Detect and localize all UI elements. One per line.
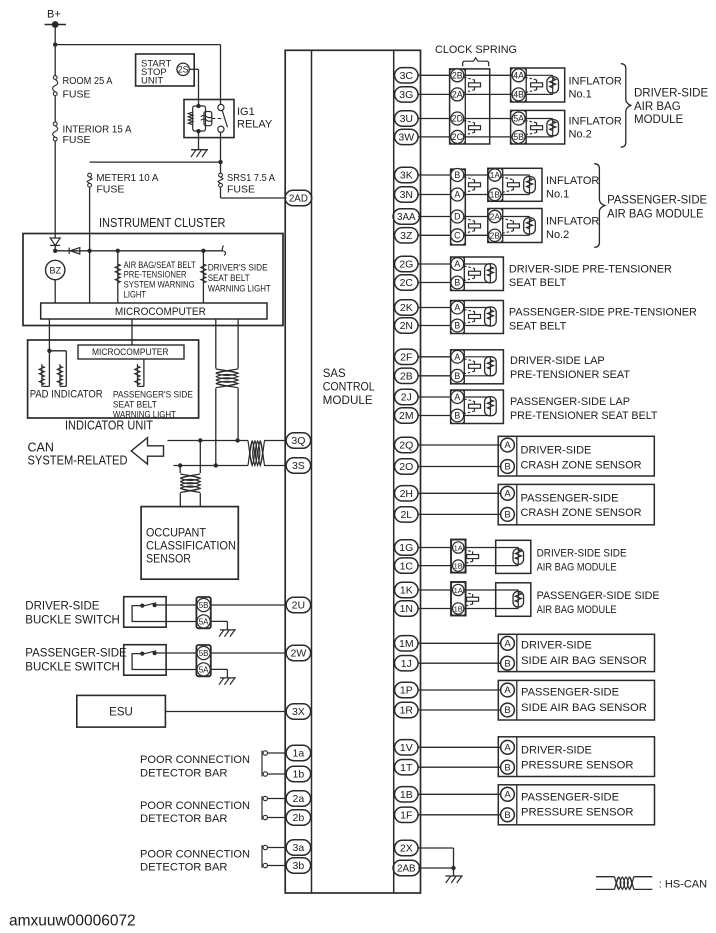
sensor passenger side air bag: [418, 680, 654, 720]
connector block passenger buckle: [196, 645, 210, 676]
node junction ground: [451, 866, 455, 870]
svg-text:2J: 2J: [401, 392, 412, 404]
connector 3N: [395, 187, 419, 202]
label occupant classification sensor: [146, 528, 236, 566]
svg-text:2AD: 2AD: [289, 194, 308, 205]
wire 5B to 2W: [210, 652, 286, 654]
svg-text:SEAT BELT: SEAT BELT: [509, 321, 567, 333]
wire CAN low to 3Q line: [237, 388, 239, 440]
label ROOM 25 A FUSE: [63, 75, 113, 101]
label PASSENGER-SIDE SIDE AIR BAG SENSOR: [521, 687, 647, 714]
connector 1T: [395, 760, 419, 775]
svg-text:SIDE AIR BAG SENSOR: SIDE AIR BAG SENSOR: [521, 702, 647, 714]
wire occupant sensor low: [179, 466, 181, 474]
svg-text:No.2: No.2: [569, 129, 592, 141]
svg-text:UNIT: UNIT: [141, 76, 163, 87]
svg-text:PASSENGER-SIDE: PASSENGER-SIDE: [521, 687, 619, 699]
shorting bar passenger pair 2: [464, 219, 481, 234]
svg-text:B+: B+: [47, 9, 61, 21]
connector 2L: [395, 507, 419, 522]
wire interior fuse to instrument cluster: [54, 141, 56, 238]
connector 3Z: [395, 228, 419, 243]
connector 2M: [395, 408, 419, 423]
connector 2K: [395, 300, 419, 315]
wire ESU to 3X: [165, 711, 286, 713]
lamp pad indicator 2: [57, 366, 62, 385]
svg-text:1B: 1B: [454, 562, 463, 571]
connector 2a: [286, 791, 311, 806]
node junction lamp2: [201, 249, 205, 253]
connector 2J: [395, 389, 419, 404]
wire pin A to inflator: [464, 194, 489, 196]
pin 4B: [512, 88, 525, 101]
svg-text:2b: 2b: [293, 812, 305, 824]
label DRIVER-SIDE AIR BAG MODULE: [634, 88, 708, 127]
sensor driver side air bag: [418, 634, 654, 671]
label INFLATOR No.1 passenger: [546, 175, 599, 201]
svg-text:FUSE: FUSE: [63, 134, 91, 146]
svg-text:SRS1 7.5 A: SRS1 7.5 A: [227, 172, 275, 184]
svg-text:A: A: [504, 789, 511, 800]
svg-text:IG1: IG1: [237, 106, 255, 118]
svg-text:A: A: [454, 352, 460, 362]
shorting bar passenger pair 1: [464, 177, 481, 193]
svg-text:No.1: No.1: [569, 89, 592, 101]
lamp passenger seat belt warning: [135, 366, 140, 385]
connector 3W: [395, 129, 419, 144]
svg-text:5B: 5B: [199, 601, 209, 610]
svg-text:2O: 2O: [399, 461, 413, 473]
bracket clock spring: [463, 58, 489, 67]
brace passenger-side air bag module: [594, 164, 605, 248]
svg-text:BZ: BZ: [49, 265, 61, 275]
svg-text:A: A: [504, 488, 511, 499]
connector 3b: [286, 858, 311, 873]
label PASSENGER-SIDE PRESSURE SENSOR: [521, 792, 634, 819]
wire clock spring 2D to inflator: [464, 118, 513, 120]
svg-text:ROOM 25 A: ROOM 25 A: [63, 75, 113, 87]
pre-tensioner driver lap unit: [418, 350, 503, 384]
wire 2AB to ground: [418, 867, 453, 869]
pin 5B: [512, 130, 525, 143]
node junction lamp1: [116, 249, 120, 253]
wire cluster lamp bus: [55, 250, 222, 252]
svg-text:2F: 2F: [400, 352, 412, 364]
svg-text:RELAY: RELAY: [237, 119, 273, 131]
label DRIVER-SIDE SIDE AIR BAG MODULE: [537, 548, 627, 574]
svg-text:DETECTOR BAR: DETECTOR BAR: [140, 862, 228, 874]
label SRS1 7.5 A FUSE: [227, 172, 275, 196]
brace driver-side air bag module: [621, 64, 631, 148]
wire METER1 to microcomputer: [89, 187, 91, 303]
pin 2A passenger inflator: [489, 210, 501, 222]
sensor driver pressure: [418, 737, 654, 777]
connector 2O: [395, 459, 419, 474]
svg-text:2A: 2A: [452, 90, 463, 100]
svg-text:METER1 10 A: METER1 10 A: [96, 172, 158, 184]
svg-text:PAD INDICATOR: PAD INDICATOR: [30, 388, 103, 400]
switch hook seat belt: [222, 246, 225, 256]
connector 1G: [395, 540, 419, 555]
svg-text:2a: 2a: [293, 793, 305, 805]
connector 1C: [395, 558, 419, 573]
svg-text:MICROCOMPUTER: MICROCOMPUTER: [92, 347, 169, 358]
connector 2Q: [395, 437, 419, 452]
wire 3K to strip: [418, 174, 451, 176]
svg-text:A: A: [504, 440, 511, 451]
svg-text:B: B: [454, 411, 460, 421]
svg-text:2L: 2L: [400, 509, 412, 521]
svg-text:PASSENGER-SIDE PRE-TENSIONER: PASSENGER-SIDE PRE-TENSIONER: [509, 307, 697, 319]
label PASSENGER-SIDE AIR BAG MODULE: [607, 194, 707, 220]
svg-text:SYSTEM-RELATED: SYSTEM-RELATED: [28, 453, 128, 467]
wire relay coil to ground: [198, 131, 200, 149]
pin 2D clock spring: [451, 112, 464, 125]
node junction B+ bus: [53, 42, 57, 46]
twisted pair CAN from cluster: [216, 369, 238, 388]
svg-text:5B: 5B: [199, 649, 209, 658]
label DRIVER-SIDE BUCKLE SWITCH: [25, 601, 120, 627]
wire 3G to clock spring: [418, 93, 451, 95]
node junction CAN high: [214, 463, 218, 467]
svg-text:SIDE AIR BAG SENSOR: SIDE AIR BAG SENSOR: [521, 655, 647, 667]
svg-text:CLOCK SPRING: CLOCK SPRING: [435, 44, 517, 56]
connector 2B: [395, 368, 419, 383]
label DRIVER-SIDE SIDE AIR BAG SENSOR: [521, 640, 647, 667]
svg-text:AIR BAG: AIR BAG: [634, 101, 681, 113]
svg-text:3b: 3b: [293, 860, 305, 872]
connector 1B: [395, 787, 419, 802]
ground relay coil: [191, 150, 208, 157]
diode D2 left: [69, 248, 80, 254]
pin 1B passenger inflator: [489, 188, 501, 200]
box inflator No.2 passenger: [488, 209, 542, 243]
connector 1K: [395, 582, 419, 597]
svg-text:5B: 5B: [513, 132, 524, 142]
svg-text:MODULE: MODULE: [634, 114, 684, 126]
squib inflator No.2 passenger: [501, 217, 535, 236]
node junction BZ: [53, 249, 57, 253]
wire twisted pair to occupant sensor: [180, 493, 200, 506]
wire SRS1 to connector 2AD: [221, 187, 287, 198]
connector 2W: [286, 645, 311, 660]
svg-text:A: A: [504, 742, 511, 753]
label DRIVER-SIDE LAP PRE-TENSIONER SEAT: [510, 355, 630, 381]
svg-text:BUCKLE SWITCH: BUCKLE SWITCH: [25, 662, 120, 674]
svg-text:INFLATOR: INFLATOR: [569, 75, 622, 87]
wire 3AA to strip: [418, 216, 451, 218]
label INSTRUMENT CLUSTER: [99, 215, 226, 230]
svg-text:PRE-TENSIONER SEAT: PRE-TENSIONER SEAT: [510, 369, 630, 381]
ground driver buckle: [219, 630, 236, 637]
box microcomputer cluster: [41, 303, 267, 319]
fuse ROOM 25 A: [53, 76, 58, 96]
connector 2U: [286, 597, 311, 612]
svg-text:DRIVER-SIDE: DRIVER-SIDE: [25, 601, 99, 613]
pin D passenger module: [451, 210, 464, 223]
connector 5A passenger: [197, 663, 210, 676]
arrow CAN system-related: [131, 438, 163, 465]
svg-text:FUSE: FUSE: [96, 184, 124, 196]
connector 2AB: [393, 860, 420, 875]
svg-text:CRASH ZONE SENSOR: CRASH ZONE SENSOR: [521, 507, 642, 519]
connector 2C: [395, 275, 419, 290]
label PASSENGER-SIDE BUCKLE SWITCH: [25, 648, 127, 674]
svg-text:A: A: [454, 259, 460, 269]
svg-text:1P: 1P: [400, 685, 413, 697]
svg-text:: HS-CAN: : HS-CAN: [659, 879, 707, 891]
wire BZ to microcomputer: [54, 280, 56, 303]
svg-text:DRIVER-SIDE: DRIVER-SIDE: [521, 445, 592, 457]
svg-text:LIGHT: LIGHT: [124, 289, 147, 299]
svg-text:SEAT BELT: SEAT BELT: [509, 277, 567, 289]
label diagram id: [9, 913, 136, 930]
label DRIVER-SIDE PRESSURE SENSOR: [521, 744, 634, 771]
svg-text:PRESSURE SENSOR: PRESSURE SENSOR: [521, 807, 634, 819]
wire 3U to clock spring: [418, 118, 451, 120]
svg-text:3K: 3K: [400, 170, 413, 182]
svg-text:2H: 2H: [400, 488, 413, 500]
box driver buckle switch: [124, 597, 166, 628]
box inflator No.2 driver: [511, 110, 565, 144]
svg-text:3AA: 3AA: [397, 212, 416, 223]
svg-text:WARNING LIGHT: WARNING LIGHT: [208, 283, 271, 293]
svg-text:PRE-TENSIONER: PRE-TENSIONER: [124, 270, 187, 280]
label DRIVER-SIDE CRASH ZONE SENSOR: [521, 445, 642, 472]
node junction meter wire: [87, 249, 91, 253]
diode D1 down: [50, 238, 60, 251]
connector 1b: [286, 766, 311, 781]
svg-text:A: A: [504, 685, 511, 696]
svg-text:INSTRUMENT CLUSTER: INSTRUMENT CLUSTER: [99, 215, 226, 230]
svg-text:PASSENGER-SIDE: PASSENGER-SIDE: [521, 792, 619, 804]
connector block driver buckle: [196, 597, 210, 628]
svg-text:DRIVER-SIDE LAP: DRIVER-SIDE LAP: [510, 355, 605, 367]
svg-text:POOR CONNECTION: POOR CONNECTION: [140, 800, 250, 812]
wire clock spring 2A to inflator: [464, 93, 513, 95]
svg-text:2C: 2C: [452, 132, 464, 142]
wire pin D to inflator: [464, 216, 489, 218]
wire B+ to IG1 relay: [55, 45, 220, 105]
svg-text:3S: 3S: [292, 460, 305, 472]
label INFLATOR No.2 passenger: [546, 216, 599, 242]
svg-text:1A: 1A: [454, 544, 463, 553]
svg-text:D: D: [454, 212, 460, 222]
pre-tensioner passenger lap unit: [418, 390, 503, 424]
label START STOP UNIT: [141, 59, 171, 87]
svg-text:3W: 3W: [398, 132, 414, 144]
twisted pair 3Q 3S lines: [248, 441, 265, 466]
svg-text:INFLATOR: INFLATOR: [546, 175, 599, 187]
svg-text:2X: 2X: [400, 843, 413, 855]
pin 4A: [512, 69, 525, 82]
shorting bar clock spring pair 2: [464, 121, 481, 135]
svg-text:3X: 3X: [292, 706, 305, 718]
connector 1J: [395, 656, 419, 671]
svg-text:PASSENGER-SIDE: PASSENGER-SIDE: [521, 492, 619, 504]
wire relay contact to SRS1: [220, 132, 222, 173]
svg-text:DRIVER-SIDE: DRIVER-SIDE: [521, 640, 592, 652]
svg-text:4A: 4A: [513, 70, 524, 80]
label INFLATOR No.2 driver: [569, 116, 622, 141]
svg-text:1B: 1B: [490, 191, 501, 200]
svg-text:1C: 1C: [400, 560, 414, 572]
label PASSENGER-SIDE LAP PRE-TENSIONER SEAT BELT: [510, 396, 658, 422]
svg-text:B: B: [504, 658, 510, 669]
svg-text:SENSOR: SENSOR: [146, 554, 191, 566]
svg-text:1a: 1a: [293, 748, 305, 760]
sensor passenger crash zone: [418, 484, 654, 524]
svg-text:B: B: [454, 371, 460, 381]
relay contact: [212, 104, 228, 132]
fuse SRS1 7.5 A: [218, 173, 223, 187]
squib inflator No.1 passenger: [501, 175, 535, 195]
connector 1M: [395, 636, 419, 651]
connector 2X: [395, 840, 419, 855]
wire CAN high to 3Q line: [215, 388, 217, 465]
svg-text:amxuuw00006072: amxuuw00006072: [9, 913, 136, 930]
label CLOCK SPRING: [435, 44, 517, 56]
wire CAN low from cluster: [237, 319, 239, 369]
box inflator No.1 passenger: [488, 168, 542, 201]
connector 2S: [177, 63, 189, 75]
label air bag warning light: [124, 260, 196, 299]
svg-text:1N: 1N: [400, 603, 413, 615]
svg-text:2C: 2C: [400, 277, 414, 289]
svg-text:2AB: 2AB: [397, 864, 416, 875]
label INFLATOR No.1 driver: [569, 75, 622, 100]
box microcomputer indicator: [78, 345, 184, 359]
connector 3S: [286, 458, 311, 473]
node junction occupant high: [198, 438, 202, 442]
label PASSENGER-SIDE PRE-TENSIONER SEAT BELT: [509, 307, 697, 333]
wire 2S to relay coil: [189, 69, 198, 106]
wire indicator microcomputer feed: [131, 319, 133, 345]
svg-text:1R: 1R: [400, 705, 414, 717]
svg-text:BUCKLE SWITCH: BUCKLE SWITCH: [25, 615, 120, 627]
svg-text:1b: 1b: [293, 769, 305, 781]
label PASSENGER-SIDE CRASH ZONE SENSOR: [521, 492, 642, 519]
connector 3C: [395, 68, 419, 83]
connector 5B passenger: [197, 646, 210, 659]
box clock spring: [450, 69, 490, 144]
connector 1R: [395, 702, 419, 717]
connector 2H: [395, 486, 419, 501]
svg-text:SAS: SAS: [323, 368, 346, 380]
wire lamp1 branch: [117, 251, 119, 303]
svg-text:B: B: [504, 462, 510, 473]
svg-text:5A: 5A: [199, 618, 209, 627]
wire 3Q line: [168, 440, 249, 442]
svg-text:INFLATOR: INFLATOR: [546, 216, 599, 228]
wire 5A to ground: [210, 621, 227, 629]
label SAS CONTROL MODULE: [323, 368, 376, 407]
shorting bar clock spring pair 1: [464, 77, 481, 92]
wire pad indicator feed: [48, 319, 50, 351]
pin 2C clock spring: [451, 130, 464, 143]
connector 3AA: [393, 209, 420, 224]
node junction occupant low: [178, 463, 182, 467]
svg-text:PASSENGER-SIDE: PASSENGER-SIDE: [25, 648, 127, 660]
svg-text:A: A: [504, 638, 511, 649]
wire 5A passenger to ground: [210, 669, 227, 677]
label detector bar 2: [140, 800, 250, 825]
svg-text:SEAT BELT: SEAT BELT: [208, 273, 250, 283]
box instrument cluster: [23, 234, 283, 326]
wire 3Z to strip: [418, 234, 451, 236]
svg-text:2S: 2S: [178, 64, 189, 74]
lamp air bag warning light: [115, 264, 120, 283]
svg-text:A: A: [454, 190, 460, 200]
box inflator No.1 driver: [511, 68, 565, 102]
wire 3S line: [174, 465, 249, 467]
pin C passenger module: [451, 229, 464, 242]
wire pad indicator legs: [42, 351, 67, 387]
svg-text:1J: 1J: [401, 658, 412, 670]
svg-text:PRESSURE SENSOR: PRESSURE SENSOR: [521, 760, 634, 772]
pin 1A passenger inflator: [489, 169, 501, 181]
svg-text:1F: 1F: [400, 810, 412, 822]
wire lamp2 branch: [202, 251, 204, 303]
node junction SRS1/METER1: [218, 160, 222, 164]
svg-text:1M: 1M: [399, 638, 414, 650]
svg-text:1A: 1A: [454, 586, 463, 595]
side air bag module driver: [418, 540, 531, 574]
svg-text:B: B: [504, 810, 510, 821]
svg-text:3Z: 3Z: [400, 230, 413, 242]
svg-text:3a: 3a: [293, 842, 305, 854]
svg-text:2W: 2W: [291, 648, 307, 660]
box indicator unit: [28, 340, 199, 418]
fuse METER1 10 A: [87, 173, 92, 187]
svg-text:FUSE: FUSE: [63, 89, 91, 101]
node B+ battery terminal: [45, 9, 67, 28]
svg-text:AIR BAG MODULE: AIR BAG MODULE: [537, 604, 617, 616]
wire 5B to 2U: [210, 604, 286, 606]
svg-text:PRE-TENSIONER SEAT BELT: PRE-TENSIONER SEAT BELT: [510, 410, 658, 422]
sensor driver crash zone: [418, 436, 654, 476]
svg-text:2M: 2M: [399, 410, 414, 422]
label INTERIOR 15 A FUSE: [63, 123, 132, 146]
wire B+ vertical feed: [54, 25, 56, 76]
svg-text:CRASH ZONE SENSOR: CRASH ZONE SENSOR: [521, 459, 642, 471]
poor connection detector bar 1: [262, 751, 286, 777]
switch driver buckle: [132, 603, 197, 622]
svg-text:PASSENGER-SIDE: PASSENGER-SIDE: [607, 194, 707, 206]
label DRIVER-SIDE PRE-TENSIONER SEAT BELT: [509, 263, 672, 289]
twisted pair occupant sensor: [180, 474, 200, 493]
poor connection detector bar 3: [262, 845, 286, 868]
svg-text:B: B: [454, 170, 460, 180]
svg-text:INFLATOR: INFLATOR: [569, 116, 622, 128]
twisted pair HS-CAN legend: [596, 877, 652, 890]
svg-text:A: A: [454, 392, 460, 402]
wire 2X to ground: [418, 848, 453, 876]
svg-text:3N: 3N: [400, 189, 413, 201]
wire clock spring 2C to inflator: [464, 136, 513, 138]
lamp driver seat belt warning light: [201, 264, 206, 283]
connector 2N: [395, 318, 419, 333]
svg-text:4B: 4B: [513, 90, 524, 100]
connector 3K: [395, 167, 419, 182]
svg-text:No.1: No.1: [546, 189, 569, 201]
wire occupant sensor high: [199, 441, 201, 474]
svg-text:5A: 5A: [199, 666, 209, 675]
svg-text:POOR CONNECTION: POOR CONNECTION: [140, 754, 250, 766]
box ESU: [77, 695, 166, 727]
svg-text:AIR BAG/SEAT BELT: AIR BAG/SEAT BELT: [124, 260, 196, 270]
pre-tensioner driver seat belt unit: [418, 257, 503, 291]
